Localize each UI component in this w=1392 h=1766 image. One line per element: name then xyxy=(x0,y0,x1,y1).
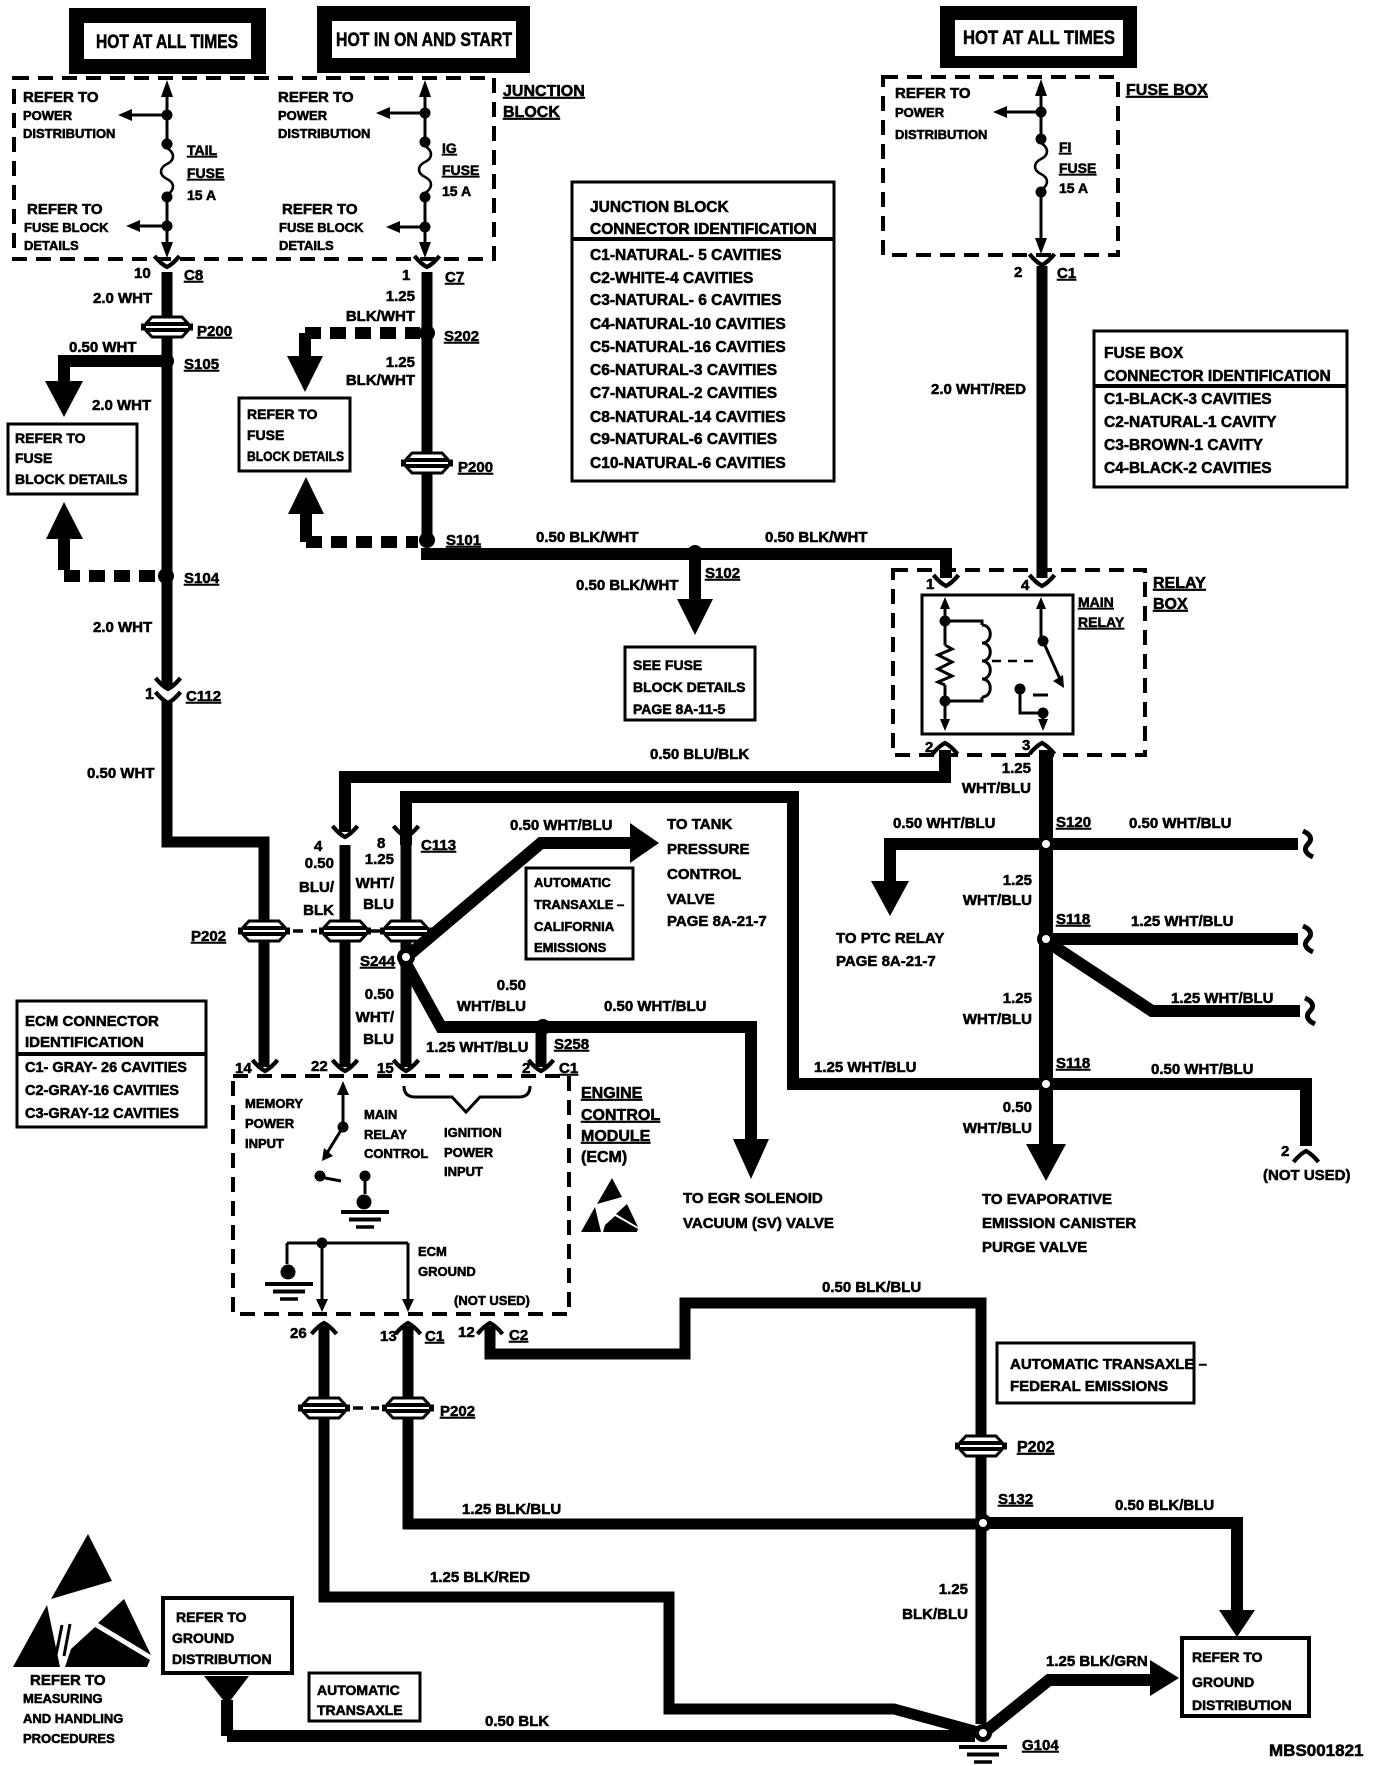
svg-text:REFER TO: REFER TO xyxy=(1192,1649,1263,1665)
svg-text:S105: S105 xyxy=(184,356,219,373)
svg-text:26: 26 xyxy=(290,1325,307,1342)
connector C113 pin 4 xyxy=(314,826,358,855)
node S132 xyxy=(998,1491,1033,1508)
connector C1 (fuse box) xyxy=(1014,254,1076,282)
svg-text:TO EVAPORATIVE: TO EVAPORATIVE xyxy=(982,1191,1112,1208)
label TO PTC RELAY PAGE 8A-21-7 xyxy=(836,930,944,970)
inline connector P202 bowtie 3 xyxy=(380,921,432,941)
svg-text:S101: S101 xyxy=(446,532,481,549)
svg-text:0.50 WHT/BLU: 0.50 WHT/BLU xyxy=(893,815,996,832)
ESD symbol (ECM) xyxy=(581,1178,638,1232)
box REFER TO GROUND DISTRIBUTION (left) xyxy=(163,1598,292,1673)
box REFER TO FUSE BLOCK DETAILS (left) xyxy=(8,424,137,494)
svg-text:GROUND: GROUND xyxy=(418,1264,476,1279)
label TO EGR SOLENOID VACUUM (SV) VALVE xyxy=(683,1190,834,1232)
inline connector P202 bowtie 1 xyxy=(238,921,290,941)
node dots FI fuse xyxy=(1036,107,1047,198)
svg-text:1.25: 1.25 xyxy=(386,288,415,305)
svg-text:WHT/: WHT/ xyxy=(356,1009,395,1026)
connector C8 xyxy=(134,256,203,284)
svg-text:0.50: 0.50 xyxy=(497,977,526,994)
label 0.50 WHT/BLU (right of S120) xyxy=(1129,815,1232,832)
svg-text:CONTROL: CONTROL xyxy=(581,1107,660,1124)
svg-text:WHT/BLU: WHT/BLU xyxy=(963,1011,1032,1028)
wire C113 pin4 down to ECM pin22 xyxy=(340,845,351,1067)
wire FI fuse C1 down to relay pin4 (2.0 WHT/RED) xyxy=(1037,266,1048,578)
label IGNITION POWER INPUT xyxy=(444,1125,502,1179)
svg-text:WHT/BLU: WHT/BLU xyxy=(963,892,1032,909)
svg-text:1.25: 1.25 xyxy=(365,851,394,868)
wire S118 diagonal branch xyxy=(1046,941,1315,1024)
wire S120 left arm with down arrow xyxy=(871,844,1040,916)
svg-text:BLOCK: BLOCK xyxy=(503,104,560,121)
svg-text:BLK/WHT: BLK/WHT xyxy=(346,372,415,389)
svg-text:P202: P202 xyxy=(1017,1439,1054,1456)
dashed wire to S101 xyxy=(306,530,418,542)
ECM pin 13 xyxy=(380,1323,444,1345)
svg-text:2: 2 xyxy=(522,1060,530,1077)
svg-text:VALVE: VALVE xyxy=(667,891,715,908)
inline connector P202 bowtie (pin26) xyxy=(298,1398,350,1418)
svg-text:1: 1 xyxy=(926,576,934,593)
svg-text:INPUT: INPUT xyxy=(444,1164,483,1179)
svg-text:JUNCTION: JUNCTION xyxy=(503,83,585,100)
dashed link P202 row2 xyxy=(353,1406,379,1410)
svg-text:BOX: BOX xyxy=(1153,596,1188,613)
svg-text:C7: C7 xyxy=(445,269,464,286)
svg-text:FUSE: FUSE xyxy=(442,162,479,178)
svg-text:C3-GRAY-12 CAVITIES: C3-GRAY-12 CAVITIES xyxy=(25,1106,179,1122)
svg-text:REFER TO: REFER TO xyxy=(176,1609,247,1625)
wire C8 to ECM pin14 (2.0 WHT / 0.50 WHT) xyxy=(167,272,264,1067)
relay box dashed outline xyxy=(893,570,1145,755)
label MAIN RELAY xyxy=(1078,594,1125,630)
wire 0.50 BLK/WHT to relay pin1 xyxy=(421,554,946,578)
dashed link P202 xyxy=(293,929,317,933)
svg-text:C1: C1 xyxy=(425,1328,444,1345)
svg-text:(NOT USED): (NOT USED) xyxy=(1263,1167,1351,1184)
svg-text:14: 14 xyxy=(235,1060,252,1077)
fuse IG squiggle xyxy=(419,146,431,193)
svg-text:REFER TO: REFER TO xyxy=(895,85,971,102)
svg-text:C2-GRAY-16 CAVITIES: C2-GRAY-16 CAVITIES xyxy=(25,1083,179,1099)
box AUTOMATIC TRANSAXLE xyxy=(309,1673,420,1721)
svg-text:INPUT: INPUT xyxy=(245,1136,284,1151)
connector C113 pin 8 xyxy=(377,826,456,854)
svg-text:WHT/BLU: WHT/BLU xyxy=(963,1120,1032,1137)
svg-text:IGNITION: IGNITION xyxy=(444,1125,502,1140)
box AUTOMATIC TRANSAXLE CALIFORNIA EMISSIONS xyxy=(526,868,633,959)
svg-text:S118: S118 xyxy=(1056,911,1090,928)
svg-text:POWER: POWER xyxy=(23,108,73,123)
label MEMORY POWER INPUT xyxy=(245,1096,303,1151)
svg-text:2.0 WHT: 2.0 WHT xyxy=(93,290,152,307)
node S101 xyxy=(419,532,481,549)
svg-text:G104: G104 xyxy=(1022,1737,1059,1754)
relay switch xyxy=(1015,597,1065,731)
junction block dashed box xyxy=(14,78,494,259)
svg-text:S244: S244 xyxy=(360,953,396,970)
wire S105 branch with down arrow xyxy=(45,361,166,417)
svg-text:P200: P200 xyxy=(197,323,232,340)
node S116 xyxy=(1037,1055,1090,1093)
svg-text:1.25 BLK/GRN: 1.25 BLK/GRN xyxy=(1046,1653,1148,1670)
node S118 xyxy=(1037,911,1090,948)
svg-text:15 A: 15 A xyxy=(1059,180,1088,196)
relay pin 3 xyxy=(1022,737,1055,754)
label 1.25 WHT/BLU (S118-S116) xyxy=(963,990,1032,1028)
label MAIN RELAY CONTROL xyxy=(364,1107,428,1161)
svg-text:WHT/BLU: WHT/BLU xyxy=(962,780,1031,797)
svg-text:FUSE: FUSE xyxy=(1059,160,1096,176)
wire FI fuse vertical xyxy=(1035,79,1047,254)
svg-text:FUSE: FUSE xyxy=(15,450,52,466)
wire IG fuse vertical xyxy=(419,80,431,258)
ECM connector identification table xyxy=(17,1001,206,1127)
svg-text:S258: S258 xyxy=(554,1036,589,1053)
svg-text:IG: IG xyxy=(442,140,457,156)
label 0.50 WHT/BLU (stack above S258) xyxy=(457,977,526,1015)
ECM pin 26 xyxy=(290,1323,337,1342)
svg-text:1.25 BLK/BLU: 1.25 BLK/BLU xyxy=(462,1501,561,1518)
svg-text:DISTRIBUTION: DISTRIBUTION xyxy=(1192,1697,1292,1713)
wire S116 right arm to not-used xyxy=(1052,1084,1306,1146)
svg-text:REFER TO: REFER TO xyxy=(15,430,86,446)
label FI FUSE 15 A xyxy=(1059,139,1096,196)
svg-text:P202: P202 xyxy=(191,928,226,945)
inline connector P202 (right) xyxy=(955,1436,1054,1456)
svg-text:FI: FI xyxy=(1059,139,1071,155)
label 2.0 WHT (third) xyxy=(93,619,152,636)
relay coil-switch dashed link xyxy=(992,660,1038,663)
svg-text:2.0 WHT: 2.0 WHT xyxy=(93,619,152,636)
arrow refer-to-fuseblock (left fuse) xyxy=(126,220,167,232)
fuse box connector identification table xyxy=(1094,331,1347,487)
wire S132 right arm to ground distribution arrow xyxy=(989,1523,1255,1637)
svg-text:8: 8 xyxy=(377,835,385,852)
ECM pin 15 xyxy=(377,1060,419,1077)
svg-text:AUTOMATIC TRANSAXLE –: AUTOMATIC TRANSAXLE – xyxy=(1010,1356,1207,1373)
svg-text:JUNCTION BLOCK: JUNCTION BLOCK xyxy=(590,199,729,216)
svg-text:FUSE: FUSE xyxy=(247,427,284,443)
svg-text:1.25 WHT/BLU: 1.25 WHT/BLU xyxy=(814,1059,917,1076)
label ENGINE CONTROL MODULE (ECM) xyxy=(581,1085,660,1166)
arrow refer-to-fuseblock (mid fuse) xyxy=(386,221,425,233)
svg-text:MBS001821: MBS001821 xyxy=(1269,1741,1364,1760)
svg-text:REFER TO: REFER TO xyxy=(23,89,99,106)
ESD symbol (bottom left) xyxy=(13,1534,151,1667)
node dots mid fuse xyxy=(420,108,431,233)
svg-text:S118: S118 xyxy=(1056,1055,1090,1072)
label S244 xyxy=(360,953,396,970)
label 1.25 WHT/BLU (S120-S118) xyxy=(963,872,1032,909)
ECM dashed box xyxy=(233,1076,569,1314)
svg-text:EMISSIONS: EMISSIONS xyxy=(534,940,607,955)
wire TAIL fuse vertical xyxy=(161,80,173,258)
label 0.50 BLK/BLU (upper) xyxy=(822,1279,921,1296)
label REFER TO POWER DISTRIBUTION (left) xyxy=(23,89,115,141)
label 0.50 WHT/BLU (right of S116) xyxy=(1151,1061,1254,1078)
label 1.25 WHT/BLU (diagonal) xyxy=(1171,990,1274,1007)
svg-text:C1: C1 xyxy=(559,1060,578,1077)
arrow up to fuse-block-details box (left) xyxy=(46,502,83,558)
node S104 xyxy=(158,568,220,587)
arrow up to fuse-block-details box (mid) xyxy=(288,477,324,534)
svg-text:FUSE BLOCK: FUSE BLOCK xyxy=(279,220,364,235)
svg-text:FEDERAL EMISSIONS: FEDERAL EMISSIONS xyxy=(1010,1378,1168,1395)
label 1.25 WHT/BLU (vertical stack) xyxy=(356,851,395,913)
svg-text:DISTRIBUTION: DISTRIBUTION xyxy=(23,126,115,141)
label 1.25 BLK/BLU (stack) xyxy=(902,1581,968,1623)
label 0.50 BLU/BLK (vertical stack) xyxy=(299,855,335,919)
label 0.50 BLK/BLU (right) xyxy=(1115,1497,1214,1514)
svg-text:S102: S102 xyxy=(705,565,740,582)
svg-text:BLOCK DETAILS: BLOCK DETAILS xyxy=(15,471,128,487)
svg-text:0.50 BLU/BLK: 0.50 BLU/BLK xyxy=(650,746,749,763)
svg-text:GROUND: GROUND xyxy=(172,1630,234,1646)
dashed wire to S104 xyxy=(64,554,158,576)
label 0.50 WHT/BLU (tank) xyxy=(510,817,613,834)
svg-text:HOT IN ON AND START: HOT IN ON AND START xyxy=(336,30,512,51)
svg-text:0.50 WHT/BLU: 0.50 WHT/BLU xyxy=(510,817,613,834)
fuse FI squiggle xyxy=(1035,143,1047,190)
node S105 xyxy=(158,353,219,373)
svg-text:1: 1 xyxy=(402,267,410,284)
svg-text:1.25 WHT/BLU: 1.25 WHT/BLU xyxy=(1171,990,1274,1007)
box SEE FUSE BLOCK DETAILS PAGE 8A-11-5 xyxy=(625,647,755,720)
svg-text:4: 4 xyxy=(314,838,323,855)
label 1.25 BLK/WHT (upper) xyxy=(346,288,415,325)
svg-text:CONTROL: CONTROL xyxy=(667,866,741,883)
svg-text:0.50 WHT/BLU: 0.50 WHT/BLU xyxy=(1151,1061,1254,1078)
svg-text:BLU/: BLU/ xyxy=(299,879,335,896)
ECM switch ground contact xyxy=(341,1171,389,1228)
label 1.25 BLK/GRN xyxy=(1046,1653,1148,1670)
wire C7 to S101 (1.25 BLK/WHT) xyxy=(422,272,433,540)
svg-text:DETAILS: DETAILS xyxy=(24,238,79,253)
node S244 ring xyxy=(397,948,415,966)
wire S244 to S258 to EGR arrow xyxy=(404,960,769,1179)
label TAIL FUSE 15 A xyxy=(187,142,224,203)
svg-text:MEMORY: MEMORY xyxy=(245,1096,303,1111)
svg-text:C8-NATURAL-14 CAVITIES: C8-NATURAL-14 CAVITIES xyxy=(590,409,786,426)
svg-text:EMISSION CANISTER: EMISSION CANISTER xyxy=(982,1215,1136,1232)
svg-text:WHT/: WHT/ xyxy=(356,875,395,892)
inline connector P200 (left) xyxy=(141,317,232,340)
svg-text:DISTRIBUTION: DISTRIBUTION xyxy=(172,1651,272,1667)
svg-text:GROUND: GROUND xyxy=(1192,1674,1254,1690)
svg-text:ECM: ECM xyxy=(418,1244,447,1259)
label REFER TO FUSE BLOCK DETAILS (left) xyxy=(24,201,109,253)
svg-text:PROCEDURES: PROCEDURES xyxy=(23,1731,115,1746)
label TO EVAPORATIVE EMISSION CANISTER PURGE VALVE xyxy=(982,1191,1136,1256)
svg-text:2: 2 xyxy=(925,739,933,756)
svg-text:ENGINE: ENGINE xyxy=(581,1085,643,1102)
svg-text:0.50: 0.50 xyxy=(305,855,334,872)
svg-text:POWER: POWER xyxy=(278,108,328,123)
svg-text:2: 2 xyxy=(1014,264,1022,281)
svg-text:C2-NATURAL-1 CAVITY: C2-NATURAL-1 CAVITY xyxy=(1104,414,1277,431)
svg-text:CONNECTOR IDENTIFICATION: CONNECTOR IDENTIFICATION xyxy=(1104,368,1331,385)
svg-text:C7-NATURAL-2 CAVITIES: C7-NATURAL-2 CAVITIES xyxy=(590,385,777,402)
header box HOT AT ALL TIMES (left) xyxy=(69,8,266,74)
node G104 ground xyxy=(959,1724,1059,1762)
svg-text:P202: P202 xyxy=(440,1403,475,1420)
ECM pin 12 xyxy=(458,1323,528,1344)
relay pin 4 xyxy=(1021,575,1055,594)
wire S120 right arm xyxy=(1052,831,1313,857)
ECM pin 22 xyxy=(311,1058,358,1075)
svg-text:C2-WHITE-4 CAVITIES: C2-WHITE-4 CAVITIES xyxy=(590,270,753,287)
svg-text:REFER TO: REFER TO xyxy=(247,406,318,422)
svg-text:0.50 BLK/WHT: 0.50 BLK/WHT xyxy=(765,529,868,546)
svg-text:1.25: 1.25 xyxy=(939,1581,968,1598)
label 0.50 WHT/BLU (left of S120) xyxy=(893,815,996,832)
label 0.50 BLU/BLK xyxy=(650,746,749,763)
relay coil branch xyxy=(938,597,952,731)
svg-text:TO EGR SOLENOID: TO EGR SOLENOID xyxy=(683,1190,823,1207)
svg-text:C1-NATURAL- 5 CAVITIES: C1-NATURAL- 5 CAVITIES xyxy=(590,247,781,264)
brace ignition power input xyxy=(404,1086,530,1112)
svg-text:TAIL: TAIL xyxy=(187,142,218,158)
svg-text:MAIN: MAIN xyxy=(364,1107,397,1122)
svg-text:15 A: 15 A xyxy=(442,183,471,199)
inline connector P202 bowtie (pin13) xyxy=(382,1398,475,1420)
box REFER TO GROUND DISTRIBUTION (right) xyxy=(1182,1638,1309,1716)
ECM main relay control switch xyxy=(315,1081,350,1182)
svg-text:BLK: BLK xyxy=(303,902,334,919)
label JUNCTION BLOCK xyxy=(503,83,585,121)
svg-text:POWER: POWER xyxy=(245,1116,295,1131)
wire C113 pin8 down to ECM pin15 xyxy=(401,845,412,1067)
wire G104 diagonal to ground distribution arrow (1.25 BLK/GRN) xyxy=(982,1660,1179,1734)
svg-text:1.25: 1.25 xyxy=(1003,990,1032,1007)
label 0.50 BLK/WHT (left of S102) xyxy=(536,529,639,546)
svg-text:CONNECTOR IDENTIFICATION: CONNECTOR IDENTIFICATION xyxy=(590,221,817,238)
wire S118 right arm xyxy=(1052,926,1313,952)
svg-text:C3-NATURAL- 6 CAVITIES: C3-NATURAL- 6 CAVITIES xyxy=(590,292,781,309)
svg-text:C6-NATURAL-3 CAVITIES: C6-NATURAL-3 CAVITIES xyxy=(590,362,777,379)
svg-text:C113: C113 xyxy=(421,837,456,854)
svg-text:0.50: 0.50 xyxy=(1003,1099,1032,1116)
svg-text:0.50 WHT/BLU: 0.50 WHT/BLU xyxy=(604,998,707,1015)
svg-text:3: 3 xyxy=(1022,737,1030,754)
label RELAY BOX xyxy=(1153,575,1206,613)
svg-text:1: 1 xyxy=(145,686,154,703)
wire S244 to tank pressure valve arrow xyxy=(410,823,659,954)
label 0.50 BLK/WHT (right of S102) xyxy=(765,529,868,546)
wire relay pin3 main vertical to evap arrow xyxy=(1026,750,1066,1181)
svg-text:1.25: 1.25 xyxy=(1003,872,1032,889)
svg-text:REFER TO: REFER TO xyxy=(30,1672,106,1689)
svg-text:PURGE VALVE: PURGE VALVE xyxy=(982,1239,1087,1256)
svg-text:13: 13 xyxy=(380,1328,397,1345)
svg-text:1.25 BLK/RED: 1.25 BLK/RED xyxy=(430,1569,530,1586)
svg-text:CONTROL: CONTROL xyxy=(364,1146,428,1161)
arrow refer-to-power (left fuse) xyxy=(118,109,167,121)
svg-text:BLU: BLU xyxy=(363,896,394,913)
svg-text:AND HANDLING: AND HANDLING xyxy=(23,1711,123,1726)
wire C113 pin8 long run to S116 xyxy=(406,797,1040,1084)
svg-text:RELAY: RELAY xyxy=(364,1127,407,1142)
svg-text:S104: S104 xyxy=(184,570,220,587)
wire ECM pin13 to S132 (1.25 BLK/BLU) xyxy=(408,1326,977,1524)
svg-text:2.0 WHT: 2.0 WHT xyxy=(92,397,151,414)
label 0.50 WHT xyxy=(69,339,137,356)
label IG FUSE 15 A xyxy=(442,140,479,199)
connector C112 xyxy=(145,678,221,705)
svg-text:PAGE 8A-21-7: PAGE 8A-21-7 xyxy=(836,953,936,970)
label 1.25 WHT/BLU (below relay) xyxy=(962,760,1031,797)
svg-text:C2: C2 xyxy=(509,1327,528,1344)
svg-text:(NOT USED): (NOT USED) xyxy=(454,1293,530,1308)
label 1.25 WHT/BLU (left of S116) xyxy=(814,1059,917,1076)
svg-text:MEASURING: MEASURING xyxy=(23,1691,102,1706)
svg-text:BLOCK DETAILS: BLOCK DETAILS xyxy=(247,448,344,464)
svg-text:1.25: 1.25 xyxy=(386,354,415,371)
svg-text:C1- GRAY- 26 CAVITIES: C1- GRAY- 26 CAVITIES xyxy=(25,1060,187,1076)
label 1.25 WHT/BLU (pin2) xyxy=(426,1039,529,1056)
relay U1 inner box xyxy=(922,595,1073,734)
svg-text:0.50 WHT/BLU: 0.50 WHT/BLU xyxy=(1129,815,1232,832)
svg-text:0.50: 0.50 xyxy=(365,986,394,1003)
svg-text:PAGE 8A-21-7: PAGE 8A-21-7 xyxy=(667,913,767,930)
label 1.25 BLK/BLU (horizontal) xyxy=(462,1501,561,1518)
label REFER TO FUSE BLOCK DETAILS (mid) xyxy=(279,201,364,253)
connector C7 xyxy=(402,256,464,286)
svg-text:C5-NATURAL-16 CAVITIES: C5-NATURAL-16 CAVITIES xyxy=(590,339,786,356)
ECM ground network xyxy=(265,1238,414,1313)
svg-text:C4-BLACK-2 CAVITIES: C4-BLACK-2 CAVITIES xyxy=(1104,460,1272,477)
svg-text:BLOCK DETAILS: BLOCK DETAILS xyxy=(633,679,746,695)
svg-text:RELAY: RELAY xyxy=(1078,614,1125,630)
funnel to 0.50 BLK wire xyxy=(204,1676,249,1736)
svg-text:TO TANK: TO TANK xyxy=(667,816,732,833)
relay pin 2 xyxy=(925,739,958,756)
label 0.50 WHT/BLU (below S116) xyxy=(963,1099,1032,1137)
node S258 xyxy=(535,1019,589,1053)
svg-text:S120: S120 xyxy=(1056,814,1091,831)
svg-text:(ECM): (ECM) xyxy=(581,1149,627,1166)
svg-text:HOT AT ALL TIMES: HOT AT ALL TIMES xyxy=(963,28,1115,49)
svg-text:S202: S202 xyxy=(444,328,479,345)
svg-text:AUTOMATIC: AUTOMATIC xyxy=(534,875,611,890)
wire ECM pin26 to G104 (1.25 BLK/RED) xyxy=(324,1326,978,1732)
svg-text:1.25 WHT/BLU: 1.25 WHT/BLU xyxy=(426,1039,529,1056)
svg-text:C3-BROWN-1 CAVITY: C3-BROWN-1 CAVITY xyxy=(1104,437,1264,454)
svg-text:DISTRIBUTION: DISTRIBUTION xyxy=(278,126,370,141)
wire 0.50 BLK to G104 xyxy=(227,1730,975,1742)
dashed link P202 b xyxy=(370,929,380,933)
svg-text:C8: C8 xyxy=(184,267,203,284)
header box HOT AT ALL TIMES (right) xyxy=(940,6,1137,68)
svg-text:RELAY: RELAY xyxy=(1153,575,1206,592)
svg-text:FUSE BOX: FUSE BOX xyxy=(1126,82,1208,99)
inline connector P202 row label xyxy=(191,928,226,945)
box AUTOMATIC TRANSAXLE FEDERAL EMISSIONS xyxy=(997,1343,1207,1403)
label REFER TO POWER DISTRIBUTION (mid) xyxy=(278,89,370,141)
svg-text:C10-NATURAL-6 CAVITIES: C10-NATURAL-6 CAVITIES xyxy=(590,455,786,472)
svg-text:P200: P200 xyxy=(458,459,493,476)
svg-text:FUSE BLOCK: FUSE BLOCK xyxy=(24,220,109,235)
label 1.25 BLK/WHT (lower) xyxy=(346,354,415,389)
dashed wire to S202 xyxy=(305,333,420,342)
label 0.50 BLK/WHT (below) xyxy=(576,577,679,594)
label REFER TO POWER DISTRIBUTION (FI) xyxy=(895,85,987,142)
arrow down to fuse-block-details box (mid) xyxy=(287,342,323,392)
svg-text:TRANSAXLE –: TRANSAXLE – xyxy=(534,897,624,912)
inline connector P200 (mid) xyxy=(401,453,493,476)
